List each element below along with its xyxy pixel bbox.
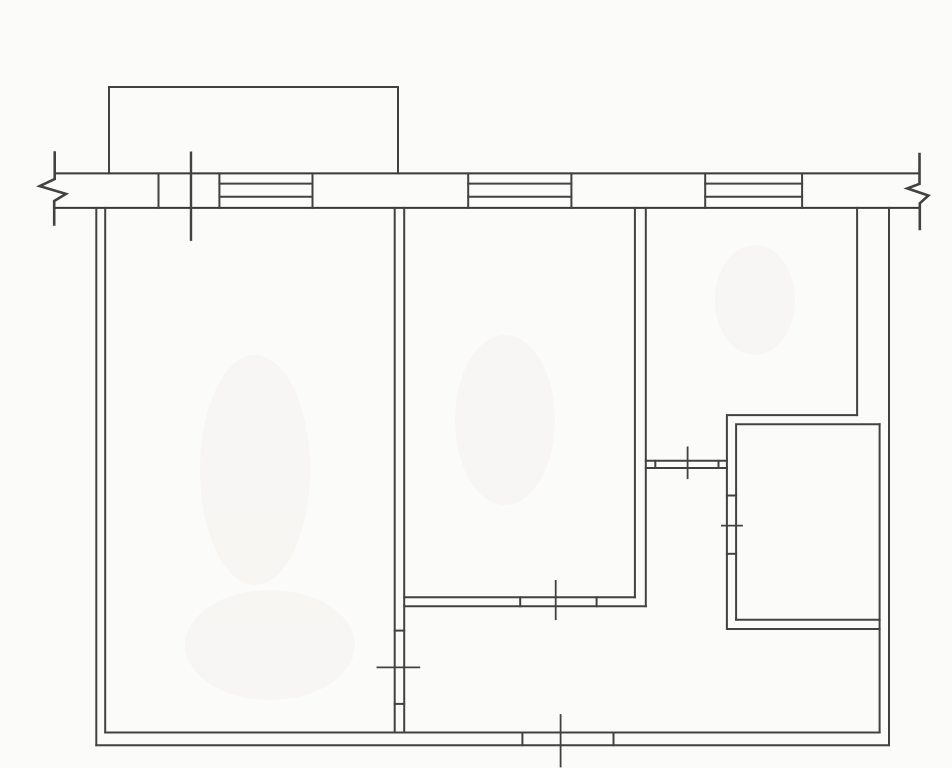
break mark left	[40, 153, 66, 225]
bathroom door	[722, 496, 742, 554]
door D	[655, 447, 718, 478]
bathroom outer walls	[727, 415, 880, 629]
balcony	[109, 87, 398, 173]
bottom wall	[96, 733, 889, 746]
bathroom inner walls	[736, 424, 880, 620]
right wall inner lower	[879, 424, 881, 732]
partition A	[395, 208, 405, 733]
exterior wall top band	[55, 173, 920, 208]
scan smudge blobs	[185, 245, 795, 700]
right wall outer	[888, 208, 890, 745]
partition C door	[520, 581, 596, 619]
window W2	[468, 173, 571, 208]
left wall	[96, 208, 105, 745]
right wall inner upper	[856, 208, 858, 415]
partition A door	[377, 631, 419, 704]
window W1	[219, 173, 312, 208]
band separator	[158, 173, 160, 208]
balcony door tick	[190, 153, 192, 240]
entrance door on bottom wall	[522, 715, 613, 767]
window W3	[705, 173, 802, 208]
partition C	[404, 597, 646, 606]
partition B	[635, 208, 646, 606]
break mark right	[907, 154, 928, 229]
passage wall D	[646, 461, 727, 468]
